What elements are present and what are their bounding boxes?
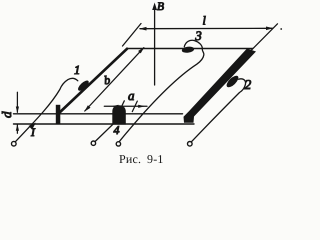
- svg-text:Рис. 9-1: Рис. 9-1: [119, 152, 164, 166]
- contact 3 blob: [181, 46, 194, 54]
- svg-text:d: d: [0, 111, 14, 118]
- B axis: [152, 3, 157, 86]
- dimension d: [16, 92, 19, 133]
- contact 2 wire bulge: [225, 74, 241, 89]
- wire from contact 2: [192, 79, 246, 142]
- dimension line l: [139, 27, 273, 31]
- terminal of contact 2: [188, 142, 193, 147]
- contact 2 (right end bar): [184, 49, 257, 123]
- plate front top edge: [14, 113, 183, 115]
- terminal of contact 3: [116, 142, 120, 146]
- current arrowhead I: [29, 123, 36, 130]
- svg-text:1: 1: [74, 63, 80, 77]
- svg-text:a: a: [128, 88, 135, 103]
- svg-text:I: I: [30, 127, 36, 139]
- svg-text:4: 4: [114, 123, 120, 137]
- dimension b line: [84, 47, 144, 112]
- terminal I: [12, 141, 17, 146]
- current lead wire to contact 1 (with I arrow): [15, 78, 78, 142]
- contact 4 (dome on front face): [112, 105, 126, 124]
- terminal of contact 4: [91, 141, 95, 145]
- dimension a line: [104, 101, 147, 112]
- plate back edge: [127, 48, 253, 50]
- svg-text:B: B: [157, 1, 164, 13]
- speck near right arrow: [280, 28, 282, 30]
- contact 1 blob: [76, 79, 90, 93]
- plate front bottom edge: [14, 123, 195, 125]
- svg-text:l: l: [203, 14, 207, 28]
- extension line left (for l): [123, 24, 142, 47]
- plate left edge (thick): [58, 49, 127, 114]
- wire from contact 4: [95, 124, 113, 141]
- wire from contact 3 with loop: [120, 40, 204, 141]
- svg-text:3: 3: [194, 28, 202, 43]
- svg-text:2: 2: [245, 77, 252, 92]
- plate left end corner bar: [56, 105, 61, 125]
- svg-text:b: b: [103, 73, 111, 88]
- extension line right (for l): [251, 24, 278, 51]
